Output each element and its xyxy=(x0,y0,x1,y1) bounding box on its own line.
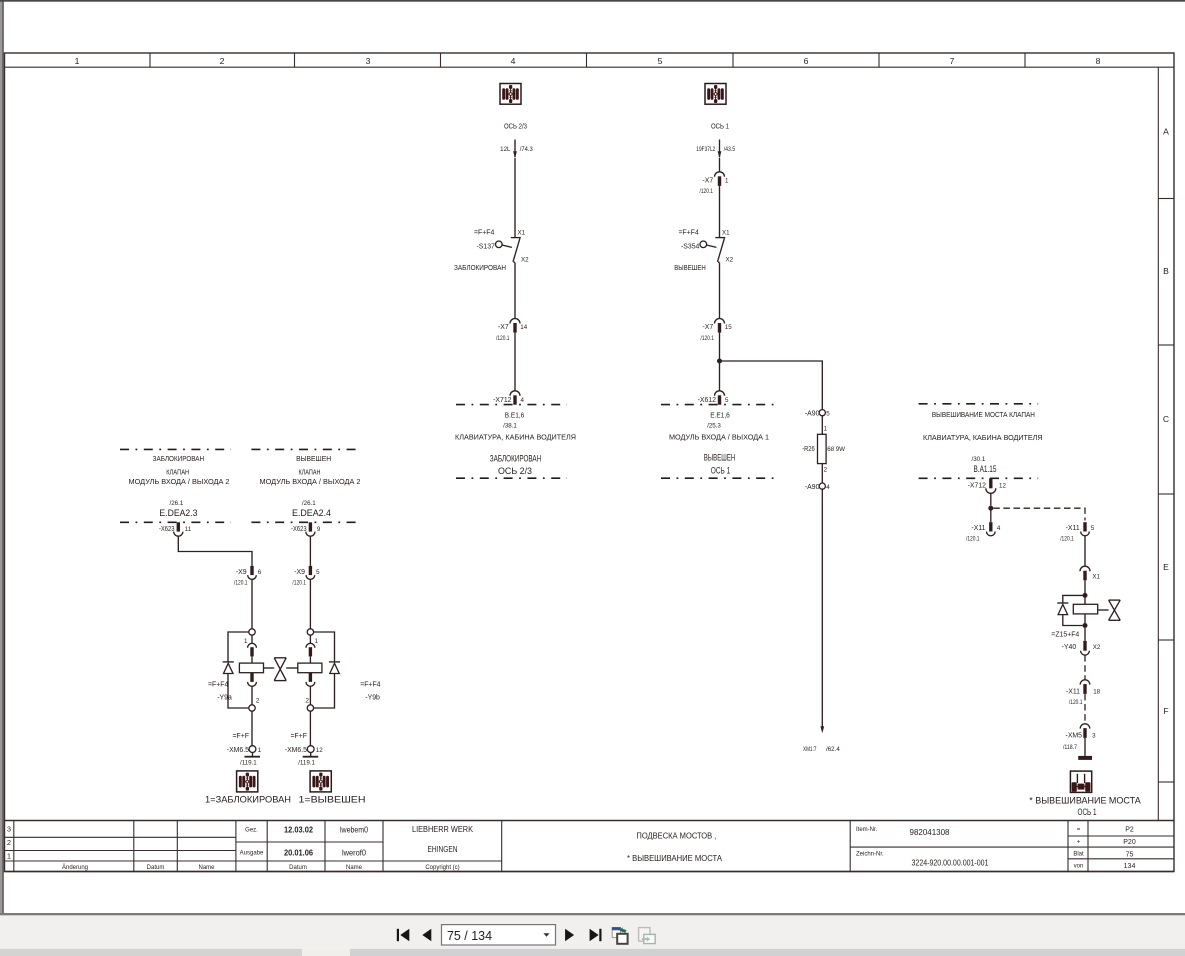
wire xyxy=(1084,628,1086,641)
module boundary dash-dot xyxy=(251,521,361,523)
svg-text:ВЫВЕШИВАНИЕ МОСТА КЛАПАН: ВЫВЕШИВАНИЕ МОСТА КЛАПАН xyxy=(932,410,1035,419)
svg-text:1: 1 xyxy=(258,747,262,754)
svg-text:X1: X1 xyxy=(722,230,730,237)
svg-text:18: 18 xyxy=(1093,689,1100,696)
svg-text:3224-920.00.00.001-001: 3224-920.00.00.001-001 xyxy=(912,858,989,868)
axle icon 1=ЗАБЛОКИРОВАН xyxy=(237,771,258,792)
svg-text:КЛАВИАТУРА, КАБИНА ВОДИТЕЛЯ: КЛАВИАТУРА, КАБИНА ВОДИТЕЛЯ xyxy=(455,433,576,442)
svg-text:1=ВЫВЕШЕН: 1=ВЫВЕШЕН xyxy=(299,795,366,805)
svg-text:134: 134 xyxy=(1124,863,1136,870)
coil Y9b xyxy=(298,663,322,673)
node circle xyxy=(307,629,313,635)
wire xyxy=(309,711,311,745)
svg-text:ЗАБЛОКИРОВАН: ЗАБЛОКИРОВАН xyxy=(454,263,506,272)
svg-text:X1: X1 xyxy=(1092,574,1100,581)
right valve group xyxy=(919,404,1142,817)
first page button xyxy=(397,929,410,941)
svg-text:5: 5 xyxy=(725,397,729,404)
svg-text:A: A xyxy=(1163,127,1169,137)
svg-text:МОДУЛЬ ВХОДА / ВЫХОДА 2: МОДУЛЬ ВХОДА / ВЫХОДА 2 xyxy=(129,477,230,486)
label Z15+F4 / Y40 xyxy=(1051,632,1079,652)
svg-text:P2: P2 xyxy=(1125,827,1134,834)
wire xyxy=(821,416,823,435)
svg-text:В.А1.15: В.А1.15 xyxy=(974,464,997,474)
wire xyxy=(309,686,311,705)
svg-text:X2: X2 xyxy=(521,257,529,264)
svg-text:15: 15 xyxy=(725,324,732,331)
svg-text:ВЫВЕШЕН: ВЫВЕШЕН xyxy=(704,453,736,463)
svg-text:=F+F4: =F+F4 xyxy=(474,230,494,237)
svg-text:/38.1: /38.1 xyxy=(503,423,517,430)
wire xyxy=(251,579,253,628)
svg-text:Ausgabe: Ausgabe xyxy=(240,851,264,857)
svg-text:ОСЬ 1: ОСЬ 1 xyxy=(1078,807,1097,817)
svg-text:ОСЬ 2/3: ОСЬ 2/3 xyxy=(504,122,527,131)
svg-text:12.03.02: 12.03.02 xyxy=(284,824,313,834)
wire xyxy=(1084,738,1086,756)
page combo box xyxy=(442,925,556,945)
svg-text:1: 1 xyxy=(315,638,319,645)
svg-text:X2: X2 xyxy=(1093,644,1101,651)
module labels ВЫВЕШЕН КЛАПАН xyxy=(260,454,361,486)
svg-text:МОДУЛЬ ВХОДА / ВЫХОДА 1: МОДУЛЬ ВХОДА / ВЫХОДА 1 xyxy=(669,433,769,442)
svg-text:=Z15+F4: =Z15+F4 xyxy=(1051,632,1079,639)
svg-text:-A90: -A90 xyxy=(805,484,820,491)
wire to XM1:7 with arrow xyxy=(803,489,840,753)
svg-text:-X7: -X7 xyxy=(498,324,509,331)
svg-text:5: 5 xyxy=(1091,525,1095,532)
node circle xyxy=(249,705,255,711)
svg-text:/120.1: /120.1 xyxy=(701,335,715,342)
module labels ЗАБЛОКИРОВАН КЛАПАН xyxy=(129,454,230,486)
svg-text:/26.1: /26.1 xyxy=(302,500,316,507)
connector X623 pin 9 xyxy=(291,522,321,536)
wire xyxy=(514,333,516,391)
svg-text:ОСЬ 1: ОСЬ 1 xyxy=(711,122,729,131)
next page button xyxy=(565,929,574,941)
lifted axle icon xyxy=(1070,771,1091,792)
svg-text:6: 6 xyxy=(804,56,809,66)
node circle xyxy=(307,705,313,711)
svg-text:/119.1: /119.1 xyxy=(298,760,315,767)
svg-text:-XM6.5: -XM6.5 xyxy=(285,747,307,754)
svg-text:lwebem0: lwebem0 xyxy=(340,824,368,834)
valve symbol between coils xyxy=(264,658,298,681)
svg-text:B: B xyxy=(1163,266,1169,276)
svg-text:3: 3 xyxy=(1092,733,1096,740)
svg-text:E: E xyxy=(1163,562,1169,572)
connector X11 pin 18 xyxy=(1066,680,1101,706)
svg-text:EHINGEN: EHINGEN xyxy=(428,844,458,854)
module boundary dash-dot xyxy=(661,404,775,406)
svg-text:4: 4 xyxy=(511,56,516,66)
node Е.Е1,6 labels xyxy=(669,410,769,475)
svg-text:20.01.06: 20.01.06 xyxy=(284,847,313,857)
junction node xyxy=(1083,593,1088,598)
svg-text:/62.4: /62.4 xyxy=(826,746,840,753)
svg-text:/26.1: /26.1 xyxy=(170,500,184,507)
connector X7 pin 1 xyxy=(700,172,730,195)
svg-text:МОДУЛЬ ВХОДА / ВЫХОДА 2: МОДУЛЬ ВХОДА / ВЫХОДА 2 xyxy=(260,477,361,486)
module boundary dash-dot xyxy=(456,404,567,406)
svg-text:-X9: -X9 xyxy=(294,569,305,576)
svg-text:ПОДВЕСКА МОСТОВ ,: ПОДВЕСКА МОСТОВ , xyxy=(636,830,716,840)
svg-text:75: 75 xyxy=(1126,851,1134,858)
diode of Y40 xyxy=(1057,603,1068,615)
svg-text:3: 3 xyxy=(366,56,371,66)
ground terminal bar xyxy=(1078,756,1092,760)
wire xyxy=(251,711,253,745)
svg-text:/120.1: /120.1 xyxy=(1060,536,1074,543)
terminal A90 pin 4 xyxy=(805,483,830,491)
svg-text:2: 2 xyxy=(7,838,11,847)
module boundary dash-dot xyxy=(120,448,231,450)
svg-text:/120.1: /120.1 xyxy=(1069,699,1083,706)
svg-text:-X11: -X11 xyxy=(1066,689,1080,696)
svg-text:Name: Name xyxy=(198,865,215,871)
diode of Y9a xyxy=(223,662,234,674)
svg-text:Datum: Datum xyxy=(147,865,165,871)
wire xyxy=(309,579,311,628)
connector X9 pin 6 xyxy=(234,566,262,587)
svg-text:-X11: -X11 xyxy=(971,525,985,532)
svg-text:9: 9 xyxy=(317,526,321,533)
svg-text:9W: 9W xyxy=(836,446,845,453)
svg-text:lwerof0: lwerof0 xyxy=(342,847,366,857)
connector X712 pin 12 xyxy=(968,478,1007,493)
title block xyxy=(5,821,1175,872)
svg-text:/43.5: /43.5 xyxy=(724,146,736,153)
svg-text:Name: Name xyxy=(346,865,363,871)
svg-text:C: C xyxy=(1163,414,1169,424)
wire 19F37L2 with arrow xyxy=(696,140,735,159)
switch S354 xyxy=(679,230,734,264)
svg-text:-X612: -X612 xyxy=(698,397,717,404)
svg-text:=F+F: =F+F xyxy=(233,733,249,740)
module boundary dash-dot xyxy=(456,477,567,479)
svg-text:-S137: -S137 xyxy=(477,243,496,250)
wire xyxy=(821,464,823,483)
module boundary dash-dot xyxy=(661,477,775,479)
svg-text:КЛАПАН: КЛАПАН xyxy=(299,467,321,476)
svg-text:-X623: -X623 xyxy=(291,526,307,533)
svg-text:11: 11 xyxy=(185,526,192,533)
svg-text:-X9: -X9 xyxy=(236,569,247,576)
svg-text:Gez.: Gez. xyxy=(245,828,258,834)
connector X612 pin 5 xyxy=(698,391,729,405)
svg-text:von: von xyxy=(1074,864,1084,870)
coil Y40 xyxy=(1073,604,1097,614)
svg-text:12: 12 xyxy=(999,483,1006,490)
node В.Е1,6 labels xyxy=(455,410,576,476)
svg-text:* ВЫВЕШИВАНИЕ МОСТА: * ВЫВЕШИВАНИЕ МОСТА xyxy=(1029,796,1141,806)
node E.DEA2.4 xyxy=(292,500,331,518)
wire xyxy=(719,158,721,172)
svg-text:=F+F4: =F+F4 xyxy=(679,230,699,237)
svg-text:/118.7: /118.7 xyxy=(1063,744,1077,751)
svg-text:4: 4 xyxy=(826,484,830,491)
wire xyxy=(251,686,253,705)
wire from diode to pin2 node xyxy=(228,674,249,709)
axle icon ОСЬ 1 xyxy=(705,84,726,105)
coil bottom connector xyxy=(306,673,315,687)
svg-text:1: 1 xyxy=(824,426,828,433)
svg-text:В.Е1,6: В.Е1,6 xyxy=(505,410,525,419)
svg-text:X1: X1 xyxy=(518,230,526,237)
dashed wire to right branch xyxy=(993,508,1085,520)
svg-text:Е.Е1,6: Е.Е1,6 xyxy=(710,410,730,419)
svg-text:1: 1 xyxy=(725,178,729,185)
coil top connector xyxy=(248,643,257,656)
svg-text:/119.1: /119.1 xyxy=(240,760,257,767)
svg-text:/120.1: /120.1 xyxy=(292,580,306,587)
module boundary dash-dot xyxy=(919,403,1039,405)
label Y9b xyxy=(360,681,380,701)
axle icon ОСЬ 2/3 xyxy=(500,84,521,105)
svg-text:Datum: Datum xyxy=(289,865,307,871)
module boundary dash-dot xyxy=(251,448,361,450)
module labels xyxy=(923,410,1043,442)
wire xyxy=(513,262,515,264)
svg-text:75 / 134: 75 / 134 xyxy=(447,928,492,943)
coil top connector xyxy=(306,643,315,656)
wire from diode to pin2 node xyxy=(314,674,335,709)
coil bottom connector xyxy=(248,673,257,687)
connector X712 pin 4 xyxy=(493,391,524,405)
junction node xyxy=(988,506,993,511)
svg-text:Copyright (c): Copyright (c) xyxy=(425,865,459,871)
svg-text:/25.3: /25.3 xyxy=(707,423,721,430)
label Y9a xyxy=(208,681,232,701)
svg-text:ЗАБЛОКИРОВАН: ЗАБЛОКИРОВАН xyxy=(490,453,542,463)
svg-text:12L: 12L xyxy=(500,146,511,153)
svg-text:5: 5 xyxy=(316,569,320,576)
svg-text:=F+F4: =F+F4 xyxy=(360,681,380,688)
svg-text:12: 12 xyxy=(316,747,323,754)
svg-text:/120.1: /120.1 xyxy=(700,188,714,195)
svg-text:Blat: Blat xyxy=(1073,852,1084,858)
svg-text:1: 1 xyxy=(244,638,248,645)
svg-text:2: 2 xyxy=(256,697,260,704)
svg-text:ВЫВЕШЕН: ВЫВЕШЕН xyxy=(296,454,331,463)
svg-text:2: 2 xyxy=(220,56,225,66)
svg-text:-XM5: -XM5 xyxy=(1066,733,1083,740)
node E.DEA2.3 xyxy=(159,500,197,518)
wire from diode xyxy=(1063,615,1083,626)
svg-text:-R26: -R26 xyxy=(802,446,815,453)
connector X7 pin 14 xyxy=(496,319,528,342)
svg-text:1: 1 xyxy=(7,852,11,861)
svg-text:/74.3: /74.3 xyxy=(520,146,534,153)
node В.А1.15 xyxy=(972,456,997,474)
svg-text:4: 4 xyxy=(997,525,1001,532)
wire xyxy=(718,262,720,264)
svg-text:Zeichn-Nr.: Zeichn-Nr. xyxy=(856,852,884,858)
module boundary dash-dot xyxy=(919,477,1039,479)
svg-text:6: 6 xyxy=(258,569,262,576)
svg-text:-X712: -X712 xyxy=(968,483,987,490)
svg-text:5: 5 xyxy=(826,411,830,418)
svg-text:-X623: -X623 xyxy=(159,526,175,533)
wire to diode xyxy=(314,632,335,662)
svg-text:2: 2 xyxy=(306,697,310,704)
svg-text:/120.1: /120.1 xyxy=(234,580,248,587)
viewer toolbar xyxy=(397,925,655,945)
svg-text:5: 5 xyxy=(658,56,663,66)
svg-text:-A90: -A90 xyxy=(805,411,820,418)
svg-text:2: 2 xyxy=(824,467,828,474)
wire xyxy=(1084,536,1086,566)
svg-text:-X712: -X712 xyxy=(493,397,512,404)
junction node xyxy=(717,359,722,364)
diode of Y9b xyxy=(329,662,340,674)
connector X9 pin 5 xyxy=(292,566,320,587)
diode branch of Y40 xyxy=(1063,595,1085,602)
wire xyxy=(1084,580,1086,593)
svg-text:КЛАПАН: КЛАПАН xyxy=(166,467,189,476)
svg-text:4: 4 xyxy=(521,397,525,404)
svg-text:ВЫВЕШЕН: ВЫВЕШЕН xyxy=(674,263,706,272)
svg-text:=: = xyxy=(1077,827,1081,833)
svg-text:-Y40: -Y40 xyxy=(1062,644,1077,651)
svg-text:E.DEA2.3: E.DEA2.3 xyxy=(159,508,197,518)
svg-text:68: 68 xyxy=(827,446,834,453)
resistor R26 xyxy=(802,434,845,463)
svg-text:7: 7 xyxy=(950,56,955,66)
wire xyxy=(309,635,311,644)
svg-text:1: 1 xyxy=(75,56,80,66)
last page button xyxy=(590,929,602,941)
svg-text:-S354: -S354 xyxy=(681,243,700,250)
wire to diode xyxy=(228,632,249,662)
wire xyxy=(251,635,253,644)
left valve group xyxy=(120,449,381,804)
wire xyxy=(1084,595,1086,604)
svg-text:ОСЬ 2/3: ОСЬ 2/3 xyxy=(498,466,532,476)
svg-text:E.DEA2.4: E.DEA2.4 xyxy=(292,508,331,518)
axle icon 1=ВЫВЕШЕН xyxy=(310,771,331,792)
wire xyxy=(990,493,992,506)
wire xyxy=(990,511,992,523)
svg-text:* ВЫВЕШИВАНИЕ МОСТА: * ВЫВЕШИВАНИЕ МОСТА xyxy=(627,853,722,863)
terminal A90 pin 5 xyxy=(805,410,830,418)
svg-text:14: 14 xyxy=(520,324,527,331)
svg-text:3: 3 xyxy=(7,825,11,834)
svg-text:=F+F4: =F+F4 xyxy=(208,681,228,688)
connector X7 pin 15 xyxy=(701,319,733,342)
svg-text:-Y9b: -Y9b xyxy=(365,694,380,701)
wire xyxy=(514,158,516,237)
svg-text:Änderung: Änderung xyxy=(62,864,88,871)
svg-text:-XM6.5: -XM6.5 xyxy=(227,747,249,754)
terminal XM6.5 pin 12 xyxy=(285,746,323,767)
wire to resistor branch xyxy=(720,361,823,410)
svg-text:-X11: -X11 xyxy=(1066,525,1080,532)
svg-text:-X7: -X7 xyxy=(702,324,713,331)
switch S137 xyxy=(474,230,529,264)
wire xyxy=(719,186,721,237)
svg-text:982041308: 982041308 xyxy=(910,827,950,837)
connector XM5 pin 3 xyxy=(1063,724,1096,751)
svg-text:X2: X2 xyxy=(726,257,734,264)
svg-text:ЗАБЛОКИРОВАН: ЗАБЛОКИРОВАН xyxy=(153,454,205,463)
module boundary dash-dot xyxy=(120,521,231,523)
svg-text:/120.1: /120.1 xyxy=(966,536,980,543)
dashed wire xyxy=(1084,655,1086,680)
svg-text:КЛАВИАТУРА, КАБИНА ВОДИТЕЛЯ: КЛАВИАТУРА, КАБИНА ВОДИТЕЛЯ xyxy=(923,433,1043,442)
next view button (disabled) xyxy=(639,928,656,944)
svg-text:=F+F: =F+F xyxy=(291,733,307,740)
svg-text:8: 8 xyxy=(1096,56,1101,66)
connector X1 of Y40 xyxy=(1080,566,1101,581)
coil Y9a xyxy=(239,663,263,673)
svg-text:-X7: -X7 xyxy=(702,178,713,185)
svg-text:/120.1: /120.1 xyxy=(496,335,510,342)
connector X2 of Y40 xyxy=(1081,641,1101,655)
svg-text:+: + xyxy=(1077,840,1081,846)
svg-text:1=ЗАБЛОКИРОВАН: 1=ЗАБЛОКИРОВАН xyxy=(205,795,291,805)
svg-text:ОСЬ 1: ОСЬ 1 xyxy=(711,465,731,475)
connector X11 pin 5 xyxy=(1060,522,1095,542)
previous view button xyxy=(612,927,628,944)
dashed wire xyxy=(1084,694,1086,724)
svg-text:Item-Nr.: Item-Nr. xyxy=(856,827,878,833)
svg-text:/30.1: /30.1 xyxy=(972,456,986,463)
wire xyxy=(719,333,721,391)
valve symbol of Y40 xyxy=(1098,600,1121,620)
previous page button xyxy=(422,929,431,941)
svg-text:19F37L2: 19F37L2 xyxy=(696,146,715,153)
svg-text:XM1:7: XM1:7 xyxy=(803,746,817,753)
wire xyxy=(178,536,252,566)
wire 12L with arrow xyxy=(500,140,533,159)
svg-text:-Y9a: -Y9a xyxy=(217,694,232,701)
junction node xyxy=(1083,623,1088,628)
connector X623 pin 11 xyxy=(159,522,192,536)
schematic xyxy=(454,84,845,754)
wire xyxy=(309,536,311,566)
terminal XM6.5 pin 1 xyxy=(227,746,262,767)
node circle xyxy=(249,629,255,635)
svg-text:P20: P20 xyxy=(1123,839,1136,846)
svg-text:F: F xyxy=(1163,706,1168,716)
svg-text:LIEBHERR WERK: LIEBHERR WERK xyxy=(412,824,473,834)
connector X11 pin 4 xyxy=(966,522,1001,542)
